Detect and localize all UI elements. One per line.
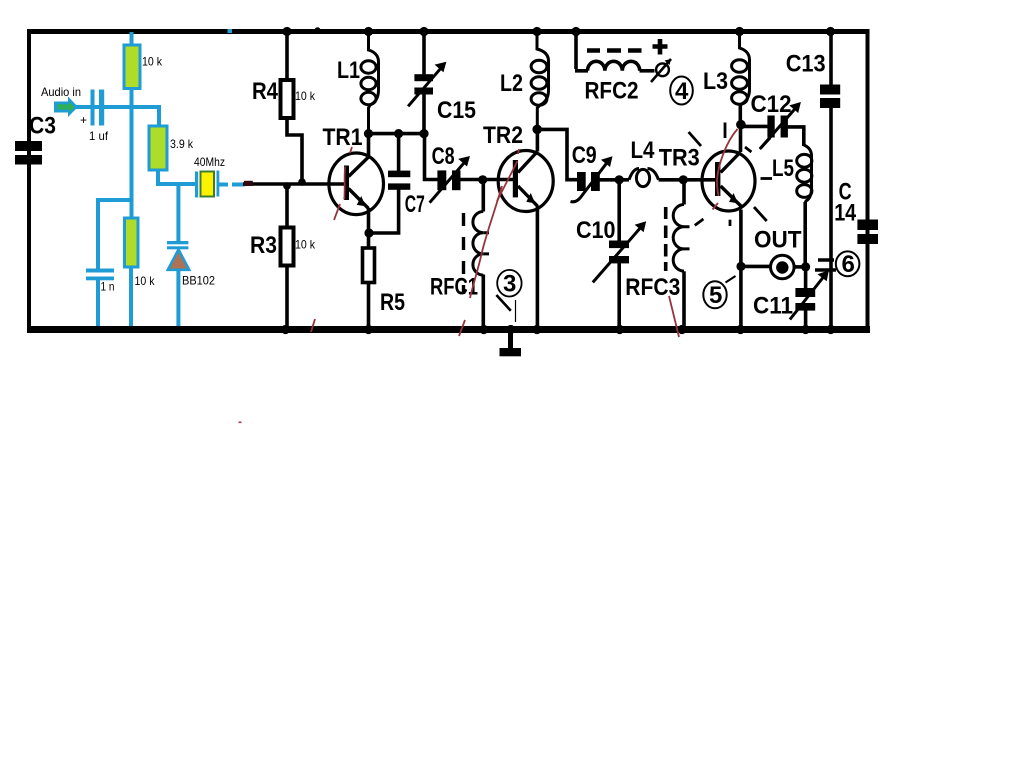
wire C13 top lead [829, 32, 833, 86]
capacitor C11 (trimmer) [795, 288, 815, 297]
wire TR3 node to C12 [741, 125, 768, 129]
wire TR1 collector [367, 134, 371, 157]
wire TR2 collector [536, 129, 540, 151]
svg-text:C15: C15 [437, 97, 476, 124]
wire 1n branch [98, 198, 133, 269]
wire R3 top lead [285, 185, 289, 228]
wire TR1 emitter [367, 208, 371, 248]
inductor L3 [732, 32, 750, 115]
svg-text:L2: L2 [500, 70, 523, 97]
varactor BB102 diode triangle [168, 250, 189, 270]
wire node to C8 [425, 134, 439, 180]
wire C9 to L4 [600, 178, 630, 182]
wire audio line [76, 105, 159, 109]
capacitor C3 (on left rail) [15, 141, 42, 151]
capacitor C9 (trimmer) [577, 172, 586, 191]
wire L5 bottom to OUT node [803, 202, 807, 267]
wire junction down to lower 10k [130, 107, 134, 218]
capacitor C8 (trimmer) [437, 170, 446, 190]
capacitor C15 (variable) [414, 74, 433, 81]
RFC2 supply plus sign [653, 39, 668, 55]
wire RFC1 bottom lead [481, 275, 485, 328]
resistor R3 [281, 228, 294, 266]
wire right rail [866, 29, 870, 333]
wire OUT jack to node [794, 265, 807, 269]
svg-text:C3: C3 [29, 113, 56, 140]
svg-text:5: 5 [709, 282, 722, 309]
svg-text:1 n: 1 n [101, 280, 115, 294]
blue tick on top rail [228, 29, 233, 33]
wire RFC2 right lead [640, 69, 655, 73]
node 4 circled [670, 77, 693, 105]
wire 1n to ground rail [96, 280, 100, 326]
wire crystal output [219, 183, 245, 187]
wire C7 bottom lead [369, 189, 399, 233]
svg-text:1 uf: 1 uf [89, 129, 109, 143]
capacitor 1 uf [91, 90, 95, 126]
svg-text:C10: C10 [576, 217, 616, 244]
svg-text:C7: C7 [405, 191, 425, 218]
svg-text:C13: C13 [786, 51, 826, 78]
tiny red speck [239, 422, 242, 424]
svg-text:L5: L5 [772, 155, 794, 182]
junction node dots bottom rail [281, 325, 835, 334]
inductor L4 [629, 169, 659, 187]
RFC3 coil [673, 205, 689, 272]
svg-text:TR2: TR2 [483, 122, 523, 149]
resistor R5 [363, 248, 375, 283]
wire RFC2 left lead [575, 32, 588, 71]
ground symbol [508, 333, 513, 349]
inductor L2 [531, 32, 548, 130]
wire 3.9k bottom to crystal [156, 169, 196, 184]
svg-text:RFC2: RFC2 [585, 78, 639, 105]
capacitor C13 [820, 85, 840, 95]
svg-text:C9: C9 [572, 142, 597, 169]
node 6 approx-equal marks [815, 260, 836, 270]
svg-text:C8: C8 [432, 143, 455, 170]
svg-text:14: 14 [834, 200, 857, 227]
wire L4 to TR3 base [659, 178, 716, 182]
wire crystal to TR1 base [243, 182, 346, 186]
TR3 sunburst marks [689, 123, 772, 227]
svg-text:10 k: 10 k [295, 89, 316, 103]
wire C8 to TR2 base [460, 178, 513, 182]
svg-text:10 k: 10 k [295, 238, 316, 252]
wire TR3 collector [739, 125, 743, 152]
node 5 circled [703, 281, 726, 308]
svg-text:40Mhz: 40Mhz [194, 155, 225, 169]
capacitor C14 (on right rail) [857, 220, 878, 231]
wire R4 top lead [285, 31, 289, 80]
RFC1 dashed line [462, 213, 465, 294]
wire C7 top lead [397, 134, 401, 171]
wire lower 10k to ground rail [129, 267, 133, 326]
wire bottom ground rail [27, 326, 870, 333]
RFC2 tap circle [656, 63, 669, 76]
wire TR2 emitter to ground rail [536, 206, 540, 328]
svg-text:TR1: TR1 [323, 124, 363, 151]
RFC2 coil [588, 61, 640, 71]
RFC2 dashes [587, 48, 642, 53]
capacitor C10 (variable) [609, 241, 629, 249]
wire R3 bottom lead [285, 265, 289, 327]
svg-text:BB102: BB102 [182, 274, 215, 288]
dark blob on base wire [244, 181, 253, 186]
wire L3 bottom lead [738, 104, 742, 125]
capacitor 1 n [86, 269, 114, 273]
svg-text:L1: L1 [337, 57, 360, 84]
wire C15 bottom lead [422, 95, 426, 134]
wire TR1 collector node row [369, 132, 425, 136]
resistor 10k (upper bias) [124, 45, 140, 89]
wire TR2 node to C9 [537, 129, 578, 179]
wire C12 to L5 [788, 127, 804, 146]
transistor TR3 [702, 151, 755, 211]
varactor BB102 capacitor plates [167, 241, 188, 244]
wire bias resistor top stem [130, 32, 134, 45]
svg-text:6: 6 [842, 251, 855, 278]
capacitor C12 (trimmer) [767, 116, 774, 138]
svg-text:R3: R3 [250, 232, 277, 259]
audio input arrow [54, 97, 78, 118]
wire C11 bottom lead [804, 310, 808, 327]
wire C15 top lead [422, 32, 426, 75]
transistor TR1 [329, 153, 384, 215]
wire R4 bottom lead with jog [287, 117, 302, 184]
svg-text:RFC3: RFC3 [625, 274, 680, 301]
wire left rail [27, 29, 31, 333]
wire varactor to ground rail [176, 269, 180, 326]
resistor R4 [281, 80, 294, 118]
svg-text:10 k: 10 k [135, 274, 156, 288]
svg-text:C11: C11 [753, 292, 793, 319]
wire RFC1 top lead [481, 180, 485, 212]
inductor L5 [797, 145, 812, 210]
wire C10 bottom lead [617, 263, 621, 327]
svg-text:L3: L3 [703, 68, 728, 95]
node 6 circled [836, 251, 860, 276]
wire C11 top lead [804, 267, 808, 289]
wire to 3.9k [157, 105, 161, 126]
svg-text:3.9 k: 3.9 k [170, 137, 194, 151]
wire 10k bottom stem [130, 88, 134, 107]
capacitor C7 [388, 171, 410, 178]
wire top supply rail [27, 29, 869, 34]
svg-text:TR3: TR3 [659, 145, 700, 172]
svg-text:4: 4 [675, 78, 689, 105]
transistor TR2 [498, 151, 553, 212]
resistor 10k (lower) [125, 218, 139, 267]
red pen marks [311, 129, 738, 337]
wire TR3 emitter to ground rail [739, 210, 743, 328]
node 3 circled [497, 270, 521, 297]
wire RFC3 bottom lead [682, 271, 686, 327]
svg-text:R5: R5 [380, 289, 405, 316]
resistor 3.9 k [149, 126, 167, 170]
svg-text:10 k: 10 k [142, 55, 163, 69]
wire emitter node to OUT jack [741, 265, 771, 269]
svg-text:R4: R4 [252, 78, 279, 105]
junction node dots mid circuit [283, 120, 810, 272]
svg-text:+: + [80, 113, 87, 127]
inductor L1 [361, 32, 379, 135]
OUT jack [771, 255, 795, 279]
RFC3 dashed line [664, 207, 668, 271]
RFC1 coil [473, 212, 489, 276]
svg-text:OUT: OUT [754, 226, 802, 253]
junction node dots top rail [282, 27, 835, 36]
wire C13 bottom lead [829, 108, 833, 328]
svg-text:Audio in: Audio in [41, 85, 81, 99]
wire RFC3 top lead [682, 180, 686, 205]
svg-text:C12: C12 [751, 91, 792, 118]
svg-text:3: 3 [503, 271, 516, 298]
svg-text:L4: L4 [631, 137, 656, 164]
wire R5 bottom lead [367, 283, 371, 328]
wire C10 top lead [617, 180, 621, 241]
wire varactor branch [176, 184, 180, 241]
